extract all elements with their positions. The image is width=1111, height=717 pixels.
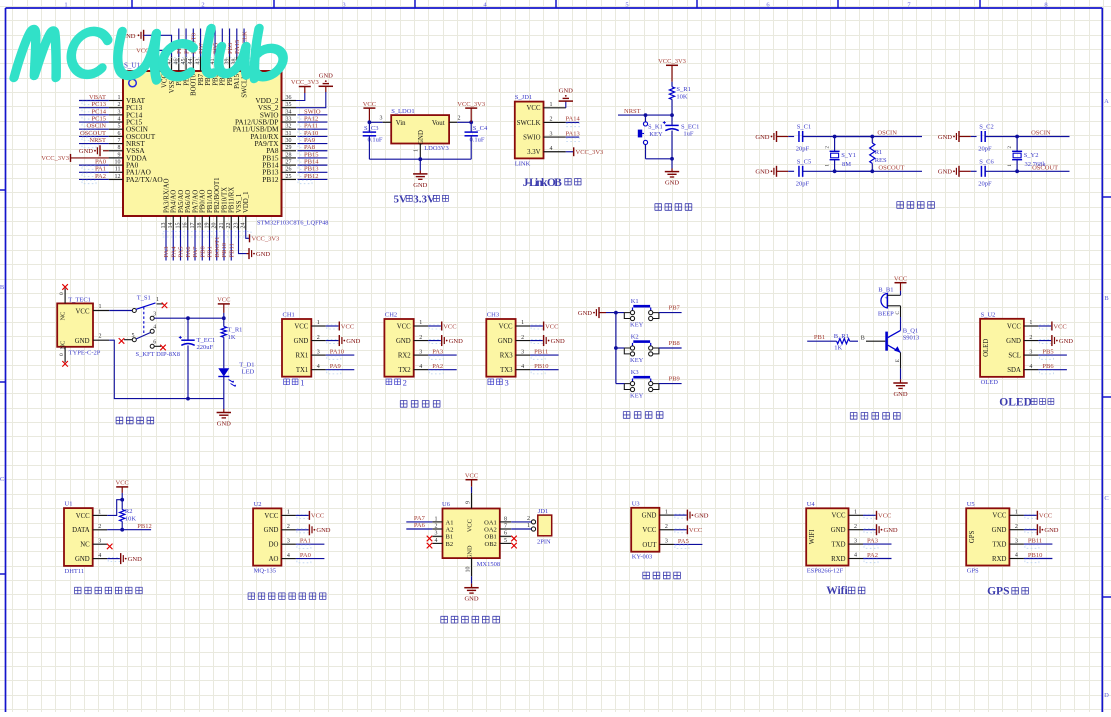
svg-text:4: 4: [550, 146, 553, 152]
pin 3 RX2: [398, 349, 428, 359]
ground: [938, 131, 977, 142]
pin 38 PA15: [232, 57, 242, 89]
svg-text:PB10: PB10: [534, 363, 548, 370]
ground at pin 2: [863, 524, 898, 535]
svg-text:+: +: [885, 295, 888, 301]
svg-text:PA3/RX/AO: PA3/RX/AO: [163, 178, 170, 213]
svg-text:GND: GND: [264, 527, 279, 534]
no-connect B1 B2: [427, 536, 433, 549]
svg-text:U6: U6: [442, 501, 451, 508]
wire net PB11: [1024, 538, 1053, 549]
pushbutton S_K1 KEY: [638, 115, 663, 159]
svg-text:1uF: 1uF: [683, 131, 694, 138]
svg-text:PA15: PA15: [234, 73, 241, 88]
svg-text:B: B: [861, 336, 865, 342]
svg-text:PB12: PB12: [137, 523, 151, 530]
wire net PB5: [212, 29, 219, 57]
wire net OSCIN: [1017, 130, 1069, 137]
pin 24 VDD_1: [241, 191, 251, 230]
pin 26 PB13: [262, 167, 296, 177]
wire net PB9: [659, 376, 682, 384]
pin 2 PC13: [109, 102, 143, 112]
wire net PA9: [298, 137, 328, 148]
ground at MCU pin 35 VSS_2: [296, 73, 333, 108]
caption J-Link OB interface: [523, 177, 581, 189]
wire net PA2: [79, 173, 109, 184]
svg-text:U4: U4: [807, 501, 816, 508]
caption wifi module: [826, 585, 865, 597]
pin 2 VCC: [642, 524, 673, 534]
ground at MCU pin 8 VSSA: [79, 145, 109, 156]
wire net NRST: [618, 108, 672, 117]
svg-text:PA2: PA2: [867, 552, 878, 559]
svg-text:CH3: CH3: [487, 312, 499, 319]
svg-text:21: 21: [219, 223, 225, 229]
svg-text:5: 5: [504, 538, 507, 544]
wire net SWIO: [298, 108, 328, 119]
svg-text:10: 10: [115, 160, 121, 166]
wire net PA12: [298, 115, 328, 126]
op-amp U_LDO1 regulator LDO3V3: [391, 108, 449, 152]
svg-text:2: 2: [527, 516, 530, 522]
svg-text:PA10: PA10: [304, 130, 318, 137]
svg-text:VCC_3V3: VCC_3V3: [658, 58, 686, 65]
svg-text:BOOT0: BOOT0: [191, 73, 198, 96]
connector S_JD1 J-Link OB: [515, 94, 544, 168]
svg-text:3: 3: [153, 312, 156, 318]
wire net PB7: [198, 29, 205, 57]
svg-text:U2: U2: [254, 501, 262, 508]
svg-text:B: B: [1104, 295, 1109, 302]
wire: [457, 120, 473, 124]
pin 17 PA7/AO: [190, 190, 200, 230]
pushbutton K2 KEY: [624, 333, 659, 363]
pin 1 VCC: [76, 510, 107, 520]
svg-text:PA3: PA3: [867, 538, 878, 545]
pin 22 PB11/RX: [226, 187, 236, 230]
svg-text:S_Y1: S_Y1: [841, 152, 856, 159]
svg-text:3: 3: [342, 1, 345, 8]
svg-text:2: 2: [458, 116, 461, 122]
svg-text:GND: GND: [396, 338, 411, 345]
connector T_TEC1 TYPE-C-2P: [57, 296, 101, 356]
svg-text:PA6/AO: PA6/AO: [185, 190, 192, 213]
wire net PA5: [178, 230, 185, 261]
wire: [670, 99, 674, 125]
wire net PA10: [298, 130, 328, 141]
svg-text:4: 4: [98, 553, 101, 559]
svg-text:RX1: RX1: [295, 353, 308, 360]
svg-text:S9013: S9013: [903, 335, 920, 342]
svg-text:PB11: PB11: [534, 349, 548, 356]
svg-text:KY-003: KY-003: [632, 554, 653, 561]
sensor U3 KY-003 hall: [631, 500, 659, 560]
svg-text:PB0: PB0: [199, 246, 206, 257]
switch T_S1 S_KFT DIP-8X8: [119, 295, 180, 359]
svg-text:24: 24: [241, 223, 247, 229]
caption GPS module: [987, 586, 1028, 598]
svg-text:PA5/AO: PA5/AO: [178, 190, 185, 213]
svg-text:VCC_3V3: VCC_3V3: [41, 155, 69, 162]
svg-text:0.1uF: 0.1uF: [470, 137, 485, 144]
svg-text:KEY: KEY: [630, 392, 644, 399]
svg-text:20: 20: [212, 223, 218, 229]
svg-text:VCC_3V3: VCC_3V3: [252, 236, 280, 243]
pin 4 SDA: [1007, 364, 1038, 374]
svg-text:34: 34: [286, 109, 292, 115]
svg-text:OLED: OLED: [983, 339, 990, 357]
svg-text:1: 1: [99, 304, 102, 310]
svg-text:GND: GND: [755, 169, 769, 176]
wire net PB11: [530, 349, 559, 360]
svg-text:28: 28: [286, 152, 292, 158]
ground at pin 2: [428, 335, 463, 346]
sensor U2 MQ-135: [253, 501, 281, 575]
wire: [646, 157, 674, 172]
pin 39 PB3: [224, 57, 234, 86]
svg-text:GND: GND: [578, 310, 592, 317]
crystal S_Y1 8M: [826, 137, 856, 172]
pin 4 3.3V: [527, 146, 566, 156]
svg-text:PB7: PB7: [669, 305, 681, 312]
svg-text:1K: 1K: [834, 345, 842, 352]
svg-text:VCC: VCC: [689, 527, 702, 534]
svg-text:3: 3: [380, 116, 383, 122]
pin 33 PA12/USB/DP: [235, 116, 296, 126]
pin 1 A1: [432, 516, 453, 526]
pin 3 OUT: [642, 539, 673, 549]
svg-text:1: 1: [98, 510, 101, 516]
svg-text:39: 39: [224, 59, 230, 65]
svg-text:PB3: PB3: [227, 43, 234, 54]
wire net PB6: [205, 29, 212, 57]
wire net PB10: [221, 230, 228, 261]
svg-text:PA3: PA3: [432, 349, 443, 356]
svg-text:PA1: PA1: [300, 538, 311, 545]
pin 4 PC15: [109, 116, 143, 126]
pin 3 PC14: [109, 109, 143, 119]
pin 43 PB7: [195, 57, 205, 86]
svg-text:13: 13: [161, 223, 167, 229]
pin 3 RX3: [500, 349, 530, 359]
svg-text:3: 3: [550, 131, 553, 137]
svg-text:OUT: OUT: [642, 542, 657, 549]
svg-text:2: 2: [550, 117, 553, 123]
sensor U1 DHT11: [64, 501, 93, 575]
svg-text:DO: DO: [269, 542, 279, 549]
svg-text:220uF: 220uF: [197, 344, 214, 351]
svg-text:GND: GND: [642, 513, 657, 520]
svg-text:RES: RES: [875, 157, 887, 164]
svg-text:3: 3: [521, 349, 524, 355]
svg-text:RX2: RX2: [398, 353, 411, 360]
ground at pin 2: [1024, 524, 1059, 535]
svg-text:8M: 8M: [842, 161, 851, 168]
svg-text:VCC: VCC: [465, 473, 478, 480]
ground at J-Link pin1: [559, 88, 574, 108]
svg-text:PA14: PA14: [566, 116, 581, 123]
wire net PB6: [1038, 363, 1067, 374]
svg-text:VCC: VCC: [443, 323, 456, 330]
svg-text:PA7/AO: PA7/AO: [192, 190, 199, 213]
svg-text:1: 1: [414, 149, 420, 152]
ground at pin 4: [107, 553, 142, 564]
svg-text:2: 2: [201, 1, 204, 8]
wire net PC15: [79, 115, 109, 126]
pin 30 PA9/TX: [254, 138, 296, 148]
svg-text:18: 18: [197, 223, 203, 229]
svg-text:1: 1: [665, 509, 668, 515]
svg-text:D: D: [1104, 692, 1109, 699]
svg-text:3: 3: [435, 531, 438, 537]
svg-text:12: 12: [115, 174, 121, 180]
pin 2 SWCLK: [517, 117, 566, 127]
svg-text:NC: NC: [80, 542, 90, 549]
svg-text:TX2: TX2: [398, 367, 411, 374]
wire: [616, 347, 624, 349]
svg-text:GND: GND: [665, 180, 679, 187]
svg-text:GND: GND: [294, 338, 309, 345]
svg-text:S_C1: S_C1: [797, 124, 811, 131]
capacitor S_C3 0.1uF: [363, 125, 383, 159]
svg-text:U5: U5: [967, 501, 975, 508]
pin 1 VBAT: [109, 95, 146, 105]
pin 2: [449, 116, 460, 123]
svg-text:1: 1: [419, 320, 422, 326]
svg-text:S_JD1: S_JD1: [515, 94, 532, 101]
label serial 1: [283, 378, 304, 388]
svg-text:OA1: OA1: [484, 519, 497, 526]
ground at MCU pin 23 VSS_1: [239, 230, 271, 259]
svg-text:A1: A1: [446, 519, 454, 526]
pushbutton K3 KEY: [624, 369, 659, 399]
pin 10 GND bottom: [465, 558, 471, 576]
svg-text:PB5: PB5: [1042, 349, 1053, 356]
caption temperature humidity module: [74, 587, 142, 593]
svg-text:Vout: Vout: [432, 120, 445, 127]
svg-text:PA7: PA7: [414, 515, 426, 522]
wire net NRST: [79, 137, 109, 148]
svg-text:2: 2: [99, 334, 102, 340]
svg-text:VCC: VCC: [76, 308, 90, 315]
svg-text:7: 7: [504, 523, 507, 529]
svg-text:OLED: OLED: [981, 379, 999, 386]
svg-text:33: 33: [286, 116, 292, 122]
pin 10 PA0: [109, 160, 139, 170]
wire OA1 to JD1: [511, 521, 531, 523]
svg-text:OB2: OB2: [485, 541, 497, 548]
svg-text:35: 35: [286, 102, 292, 108]
wire net PA7: [406, 515, 432, 522]
caption serial port circuit: [400, 401, 440, 408]
wire net PA8: [298, 144, 328, 155]
pin 4 RXD: [831, 553, 863, 563]
pin 4 TX2: [398, 364, 428, 374]
svg-text:SWIO: SWIO: [523, 135, 540, 142]
svg-text:2: 2: [98, 524, 101, 530]
svg-text:2: 2: [317, 335, 320, 341]
pin 0 top no-connect: [59, 284, 68, 303]
svg-text:K1: K1: [631, 298, 639, 305]
svg-text:43: 43: [195, 59, 201, 65]
svg-text:OSCOUT: OSCOUT: [80, 130, 106, 137]
svg-text:GND: GND: [1044, 527, 1058, 534]
svg-text:4: 4: [1029, 364, 1032, 370]
wire net PA4: [170, 230, 177, 261]
pin 35 VSS_2: [258, 102, 296, 112]
wire net SWCLK: [241, 29, 248, 57]
svg-text:4: 4: [419, 364, 422, 370]
module U5 GPS: [966, 501, 1009, 575]
caption hall module: [643, 572, 681, 579]
resistor B_R1 1K: [807, 333, 885, 352]
svg-text:GND: GND: [464, 596, 478, 603]
label serial 2: [386, 378, 407, 388]
svg-text:VCC: VCC: [1007, 323, 1021, 330]
connector S_U2 OLED: [980, 311, 1024, 386]
wire ground bus: [369, 157, 471, 174]
power VCC: [465, 473, 478, 493]
caption DC motor circuit: [441, 616, 500, 623]
power VCC pullup: [116, 480, 129, 502]
capacitor T_EC1 220uF: [179, 318, 215, 398]
wire emitter to ground: [895, 352, 901, 383]
wire net PB4: [220, 29, 227, 57]
pin 1 GND: [642, 509, 674, 519]
svg-text:TXD: TXD: [992, 542, 1006, 549]
svg-text:MQ-135: MQ-135: [254, 568, 276, 575]
svg-text:B_B1: B_B1: [878, 286, 893, 293]
wire net PA2: [428, 363, 457, 374]
svg-text:PB1/AO: PB1/AO: [207, 189, 214, 213]
pin 21 PB10/TX: [219, 187, 229, 230]
wire net PB8: [183, 29, 190, 57]
svg-text:STM32F103C8T6_LQFP48: STM32F103C8T6_LQFP48: [257, 220, 328, 227]
svg-text:GPS: GPS: [969, 530, 976, 543]
svg-text:1K: 1K: [228, 334, 236, 341]
wire pin1 to VCC: [107, 500, 122, 516]
svg-text:2: 2: [118, 102, 121, 108]
svg-text:PB10/TX: PB10/TX: [221, 187, 228, 213]
power VCC_3V3 at MCU pin 36 VDD_2: [291, 79, 319, 101]
svg-text:TXD: TXD: [832, 542, 846, 549]
svg-text:1: 1: [64, 1, 67, 8]
power VCC at pin 1: [1038, 322, 1066, 331]
svg-text:15: 15: [175, 223, 181, 229]
wire: [154, 316, 226, 320]
svg-text:1: 1: [156, 297, 159, 303]
svg-text:PA1: PA1: [95, 166, 106, 173]
wire net PA2: [863, 552, 892, 563]
wire net PA6: [185, 230, 192, 261]
svg-text:PB10: PB10: [1028, 552, 1042, 559]
logo MCUclub: [14, 29, 288, 81]
svg-text:S_C4: S_C4: [473, 125, 488, 132]
svg-text:VCC: VCC: [76, 513, 90, 520]
pin 45 PB8: [181, 57, 191, 86]
capacitor S_C2 20pF: [978, 124, 1019, 153]
svg-text:4: 4: [854, 553, 857, 559]
wire net PA13: [566, 130, 580, 141]
wire net PA15: [234, 29, 241, 57]
pin 37 SWCLK: [239, 57, 249, 98]
svg-text:PB15: PB15: [304, 151, 318, 158]
svg-text:ESP8266-12F: ESP8266-12F: [807, 568, 844, 575]
svg-text:6: 6: [504, 531, 507, 537]
svg-text:0: 0: [59, 353, 65, 356]
caption 5V to 3.3V circuit: [394, 193, 449, 205]
wire net PB10: [1024, 552, 1053, 563]
capacitor S_C4 0.1uF: [465, 122, 489, 159]
wire net PA14: [566, 116, 581, 127]
power VCC at pin 1: [428, 322, 456, 331]
label serial 3: [488, 378, 509, 388]
svg-text:7: 7: [118, 138, 121, 144]
pin 3 SCL: [1008, 349, 1038, 359]
svg-text:K2: K2: [631, 333, 639, 340]
svg-text:T_TEC1: T_TEC1: [68, 296, 91, 303]
svg-text:B: B: [0, 284, 5, 291]
pin 4 RXD: [992, 553, 1024, 563]
svg-text:E: E: [895, 359, 901, 362]
pin 47 VSS_3: [166, 57, 176, 94]
wire net PA0: [79, 159, 109, 170]
pin 3 RX1: [295, 349, 325, 359]
svg-text:GND: GND: [418, 130, 425, 145]
svg-text:RX3: RX3: [500, 353, 513, 360]
svg-text:SWCLK: SWCLK: [517, 120, 541, 127]
wire: [671, 82, 673, 87]
wire net OSCOUT: [79, 130, 109, 141]
svg-text:PA2/TX/AO: PA2/TX/AO: [126, 175, 163, 184]
capacitor S_C1 20pF: [796, 124, 837, 153]
svg-text:VCC_3V3: VCC_3V3: [457, 101, 485, 108]
pin 44 BOOT0: [188, 57, 198, 96]
power VCC_3V3 at LDO output: [457, 101, 485, 122]
svg-text:OSCIN: OSCIN: [1031, 130, 1051, 137]
pin 1 VCC: [93, 304, 132, 311]
wire: [835, 135, 875, 174]
ground: [217, 399, 232, 428]
wire: [109, 340, 224, 400]
svg-text:A2: A2: [446, 526, 454, 533]
pin 5 OB2: [485, 538, 512, 548]
pin 2 DATA: [72, 524, 107, 534]
svg-text:SDA: SDA: [1007, 367, 1021, 374]
svg-text:VCC: VCC: [311, 513, 324, 520]
svg-text:A: A: [1104, 98, 1109, 105]
caption OLED display: [999, 397, 1054, 409]
svg-text:B1: B1: [446, 534, 454, 541]
svg-text:4: 4: [118, 116, 121, 122]
svg-text:OSCOUT: OSCOUT: [1032, 165, 1058, 172]
svg-text:LINK: LINK: [515, 161, 531, 168]
svg-text:PA2: PA2: [432, 363, 443, 370]
wire net BOOT0: [191, 29, 198, 57]
svg-text:PA10: PA10: [330, 349, 344, 356]
svg-text:5: 5: [118, 124, 121, 130]
caption harmful gas module: [248, 593, 326, 599]
wire net PB11: [228, 230, 235, 261]
svg-text:46: 46: [174, 59, 180, 65]
svg-text:29: 29: [286, 145, 292, 151]
wire net PA10: [326, 349, 355, 360]
connector CH1 serial port: [282, 312, 311, 377]
svg-text:3: 3: [317, 349, 320, 355]
pin 19 PB1/AO: [204, 189, 214, 230]
svg-text:GND: GND: [884, 527, 898, 534]
svg-text:TYPE-C-2P: TYPE-C-2P: [69, 350, 101, 357]
